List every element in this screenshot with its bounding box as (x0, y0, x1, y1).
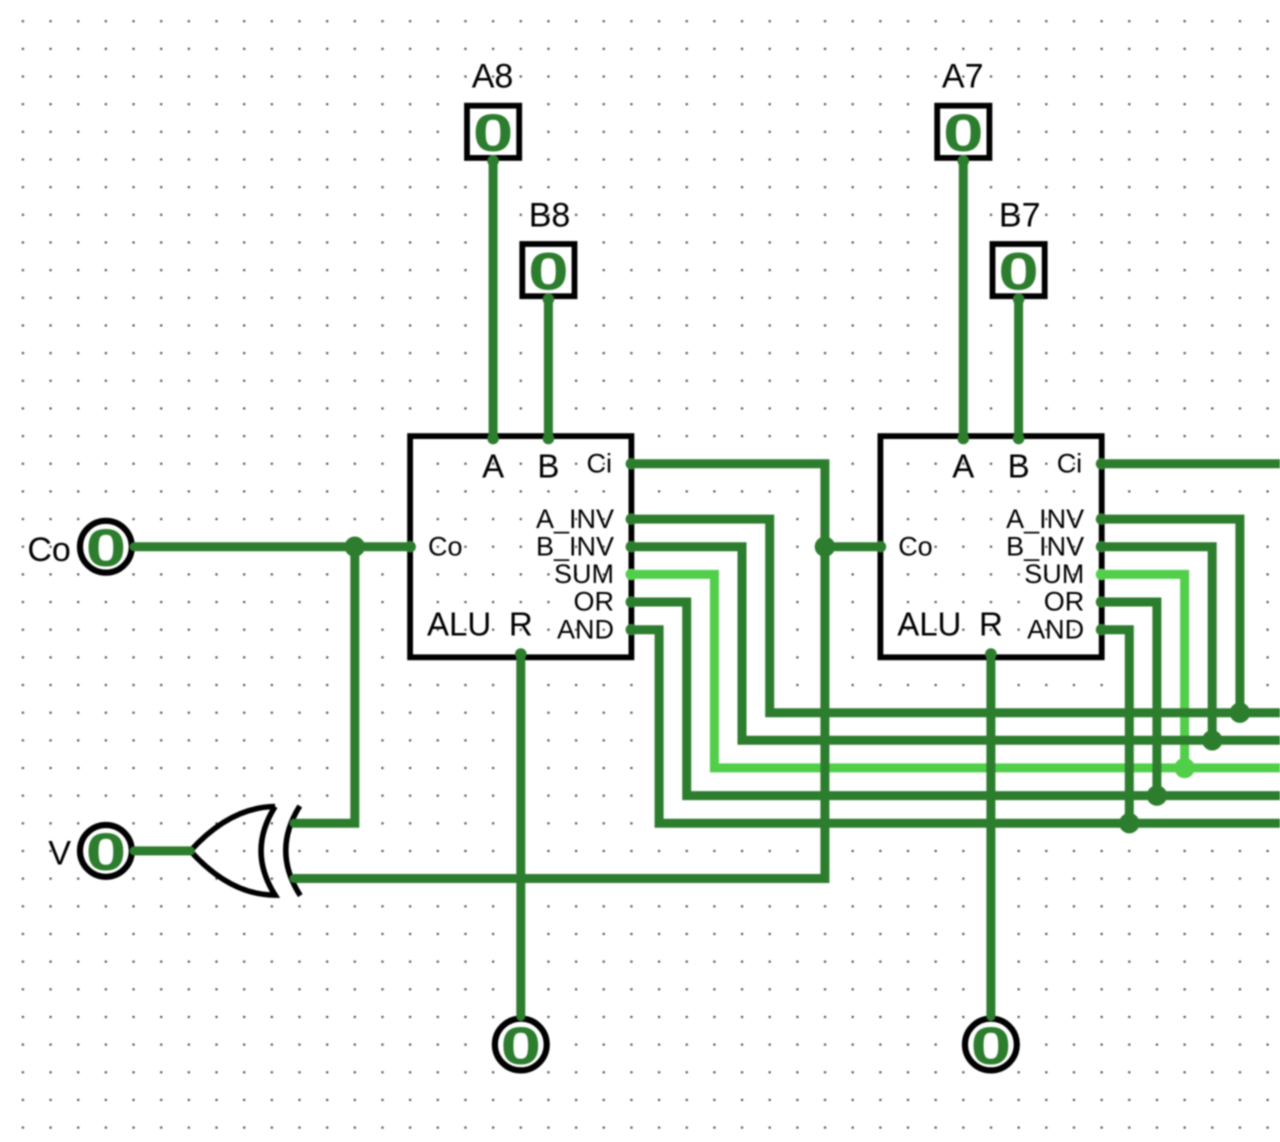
wire Co junction down to xor input 1 (294, 547, 355, 824)
junction B_INV bus (1202, 730, 1222, 750)
wire xor output to V probe (134, 846, 190, 855)
value 0 of R8 probe (500, 1016, 541, 1076)
wire Co probe to U1.Co (134, 542, 410, 551)
svg-text:R: R (509, 606, 533, 643)
svg-text:ALU: ALU (897, 606, 961, 643)
svg-text:A: A (482, 448, 504, 485)
pin dot U2.SUM light green (1096, 569, 1108, 581)
svg-text:Co: Co (898, 531, 933, 561)
svg-text:A8: A8 (472, 58, 514, 96)
svg-text:OR: OR (574, 587, 615, 617)
ALU U2 (bits 7, right) (880, 436, 1101, 657)
pin dot B7 (1013, 293, 1025, 305)
junction Co / xor branch (345, 537, 365, 557)
value 0 of Co probe (86, 518, 127, 578)
value 0 of V probe (86, 822, 127, 882)
wire U2.Ci to right edge (1102, 459, 1280, 468)
pin dot U1.SUM light green (626, 569, 638, 581)
pin dot A8 (487, 155, 499, 167)
svg-text:0: 0 (998, 241, 1039, 301)
svg-text:B8: B8 (529, 197, 571, 235)
svg-text:0: 0 (500, 1016, 541, 1076)
svg-text:AND: AND (557, 614, 614, 644)
wire AND bus: U1.AND right-down-right to edge (631, 630, 1280, 824)
pin dots U2 (875, 433, 1108, 660)
input probe Co (27, 521, 131, 573)
svg-text:R: R (979, 606, 1003, 643)
svg-text:0: 0 (943, 103, 984, 163)
wire SUM bus (light green): U1.SUM right-down-right to edge (631, 574, 1280, 768)
svg-text:B: B (1008, 448, 1030, 485)
wire Ci junction to U2.Co (825, 542, 881, 551)
svg-text:B_INV: B_INV (536, 531, 614, 561)
junction AND bus (1119, 813, 1139, 833)
svg-text:Co: Co (27, 531, 70, 569)
junction A_INV bus (1230, 703, 1250, 723)
svg-text:0: 0 (86, 822, 127, 882)
ALU U1 (bits 8, left) (410, 436, 631, 657)
wire B_INV bus: U1.B_INV right-down-right to edge (631, 547, 1280, 741)
output probe V (48, 825, 131, 877)
svg-text:B7: B7 (999, 197, 1041, 235)
value 0 of A8 (473, 103, 514, 163)
svg-text:A7: A7 (942, 58, 984, 96)
input pin B8 (522, 197, 574, 297)
wire U2.B_INV stub to bus (1102, 547, 1213, 741)
output probe R7 (965, 1019, 1017, 1071)
junction SUM bus (light green) (1174, 758, 1194, 778)
value 0 of B7 (998, 241, 1039, 301)
input pin B7 (993, 197, 1045, 297)
junction OR bus (1147, 785, 1167, 805)
xor gate U3 (overflow detect, output left) (190, 806, 300, 896)
wire U1.R to output probe R8 (516, 657, 525, 1016)
svg-text:V: V (48, 835, 71, 873)
value 0 of A7 (943, 103, 984, 163)
junction Ci chain / U2.Co (815, 537, 835, 557)
svg-text:A: A (952, 448, 974, 485)
wire B7 to U2.B (1014, 299, 1023, 436)
value 0 of R7 probe (971, 1016, 1012, 1076)
wire B8 to U1.B (544, 299, 553, 436)
svg-text:A_INV: A_INV (1006, 504, 1084, 534)
svg-text:Ci: Ci (587, 449, 613, 479)
pin dot B8 (543, 293, 555, 305)
wire U2.AND stub to bus (1102, 630, 1130, 824)
svg-text:ALU: ALU (427, 606, 491, 643)
input pin A8 (467, 58, 519, 158)
svg-text:0: 0 (971, 1016, 1012, 1076)
wire U2.R to output probe R7 (986, 657, 995, 1016)
svg-text:SUM: SUM (1024, 559, 1084, 589)
wire U2.SUM stub (light green) (1102, 574, 1185, 768)
svg-text:0: 0 (86, 518, 127, 578)
svg-text:A_INV: A_INV (536, 504, 614, 534)
svg-text:0: 0 (528, 241, 569, 301)
wire U2.A_INV stub to bus (1102, 519, 1240, 713)
svg-text:0: 0 (473, 103, 514, 163)
svg-text:B_INV: B_INV (1006, 531, 1084, 561)
pin dots U1 (404, 433, 637, 660)
output probe R8 (495, 1019, 547, 1071)
svg-text:SUM: SUM (554, 559, 614, 589)
wire U2.OR stub to bus (1102, 602, 1157, 796)
input pin A7 (937, 58, 989, 158)
svg-text:Ci: Ci (1057, 449, 1083, 479)
wire A_INV bus: U1.A_INV right-down-right to edge (631, 519, 1280, 713)
wire A7 to U2.A (959, 161, 968, 436)
wire A8 to U1.A (489, 161, 498, 436)
svg-text:AND: AND (1027, 614, 1084, 644)
wire U1.Ci chain: right, down past Co branch, to xor input 2 (294, 464, 825, 879)
svg-text:OR: OR (1044, 587, 1085, 617)
pin dot A7 (958, 155, 970, 167)
svg-text:Co: Co (428, 531, 463, 561)
value 0 of B8 (528, 241, 569, 301)
wire OR bus: U1.OR right-down-right to edge (631, 602, 1280, 796)
svg-text:B: B (537, 448, 559, 485)
